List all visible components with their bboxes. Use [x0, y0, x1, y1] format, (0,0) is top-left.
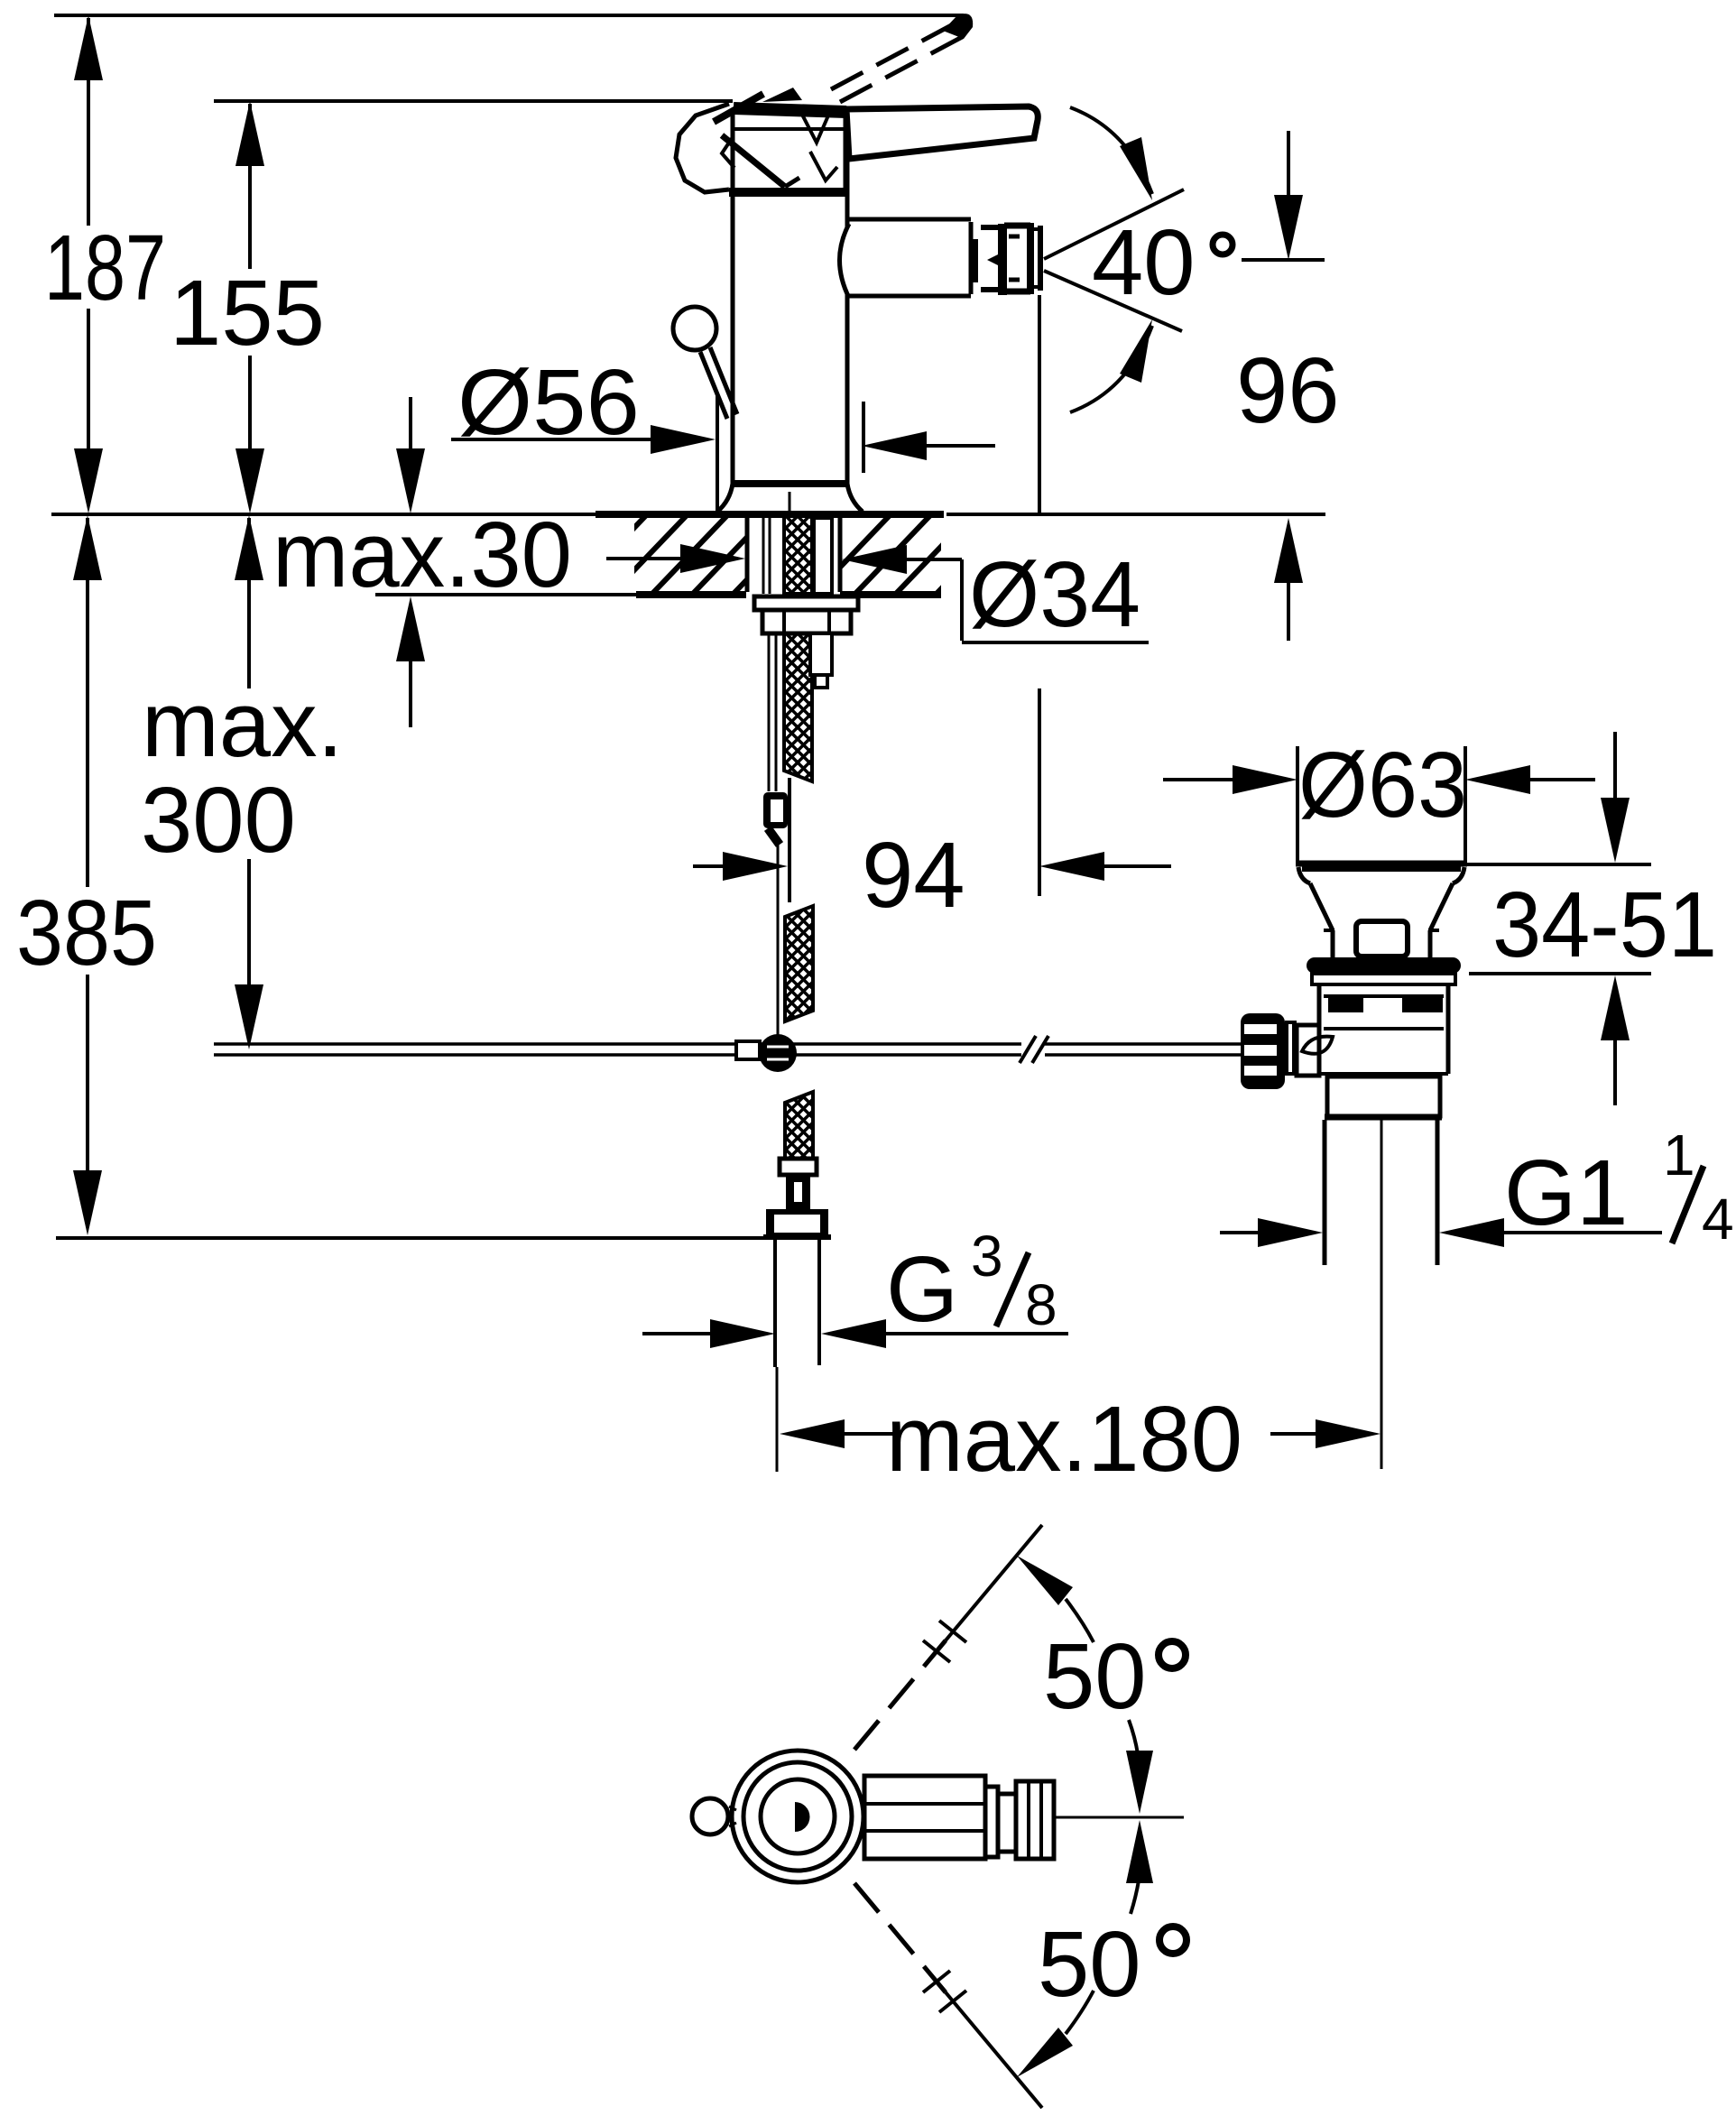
svg-text:300: 300 — [141, 768, 296, 872]
plan view centre line — [1054, 1816, 1184, 1819]
svg-text:Ø63: Ø63 — [1298, 733, 1467, 836]
svg-text:Ø56: Ø56 — [457, 350, 640, 454]
dimension max.180 — [780, 1419, 1380, 1448]
supply union nut — [766, 1209, 828, 1238]
faucet cap — [729, 108, 849, 195]
dimension D56 — [451, 394, 995, 516]
extension line left (max.180) — [776, 1367, 779, 1472]
svg-text:max.180: max.180 — [886, 1387, 1242, 1491]
dimension 94 — [693, 295, 1171, 902]
50deg lower arc arrow — [1017, 2028, 1073, 2077]
svg-text:G1: G1 — [1504, 1141, 1628, 1244]
svg-text:3: 3 — [971, 1224, 1003, 1289]
lever handle rotated 40deg (dashed) — [831, 23, 965, 102]
dimension 187 — [74, 15, 103, 513]
svg-text:max.30: max.30 — [272, 503, 572, 606]
swivel 50deg lower arm (dashed) — [854, 1883, 946, 1992]
flexible hose below nut — [784, 633, 812, 781]
faucet body — [733, 195, 847, 484]
svg-text:1: 1 — [1663, 1123, 1695, 1187]
plan view outer circle — [732, 1751, 863, 1882]
deck bottom line — [375, 593, 636, 596]
rod collar — [736, 1041, 760, 1059]
rod break symbol — [1020, 1036, 1036, 1063]
deck top line — [51, 513, 596, 516]
drain centre line — [1380, 1120, 1383, 1469]
dimension 34-51 — [1467, 732, 1651, 1105]
dimension G3/8 — [642, 1319, 1068, 1348]
svg-text:94: 94 — [862, 823, 965, 927]
drain body — [1319, 984, 1448, 1074]
cap top arrow — [762, 88, 802, 102]
dimension 385 — [73, 515, 102, 1235]
short supply tail — [810, 633, 832, 675]
aerator arrow mark — [987, 250, 1007, 270]
svg-text:50: 50 — [1038, 1912, 1141, 2016]
dimension 155 — [235, 101, 264, 513]
svg-text:G: G — [886, 1237, 958, 1341]
clamp lever — [1302, 1037, 1333, 1054]
lever handle (solid) — [846, 106, 1038, 159]
drain valve lip — [1298, 867, 1310, 883]
drain valve D63 cylinder — [1296, 746, 1467, 864]
svg-text:4: 4 — [1702, 1187, 1734, 1252]
tailpipe G1 1/4 — [1323, 1120, 1327, 1265]
mounting nut — [762, 610, 851, 633]
plan view handle — [864, 1776, 1054, 1859]
leader and label D34 — [842, 545, 1149, 642]
drain inlet box — [1297, 1025, 1319, 1076]
angle arrows at axis — [1126, 1720, 1153, 1914]
svg-text:50: 50 — [1043, 1624, 1147, 1728]
svg-text:Ø34: Ø34 — [969, 542, 1140, 646]
dimension D63 arrows — [1163, 765, 1595, 794]
drain valve taper — [1310, 883, 1333, 930]
50deg upper arc arrow — [1017, 1556, 1073, 1605]
flexible hose (hatched) in shank — [784, 516, 812, 594]
plan view stem — [795, 1802, 810, 1832]
svg-text:96: 96 — [1236, 338, 1340, 442]
svg-text:155: 155 — [170, 261, 325, 365]
pop-up knob — [673, 307, 716, 350]
svg-text:34-51: 34-51 — [1492, 873, 1717, 976]
plan view inner circle — [761, 1779, 835, 1853]
svg-text:385: 385 — [16, 881, 157, 984]
aerator rings — [974, 223, 1040, 295]
pop-up lever rod — [700, 352, 727, 419]
hose coupling — [780, 1159, 817, 1175]
flexible hose middle segment — [785, 906, 813, 1021]
svg-text:8: 8 — [1025, 1272, 1057, 1337]
washer below deck — [754, 596, 858, 610]
threaded shank through deck — [747, 518, 840, 594]
svg-text:40: 40 — [1092, 210, 1196, 314]
horizontal pull rod — [214, 1044, 1242, 1055]
svg-text:187: 187 — [44, 216, 166, 319]
dimension max.30 — [396, 397, 745, 727]
deck hatching right — [812, 512, 1015, 596]
spray angle 40deg legs — [1044, 107, 1184, 412]
swivel 50deg upper arm (dashed) — [854, 1640, 946, 1750]
dashed lever end cap — [943, 14, 973, 39]
body slots — [1328, 997, 1363, 1012]
knurled adjusting nut — [1241, 1013, 1285, 1089]
dimension G1 1/4 — [1220, 1218, 1662, 1247]
reference line (155) — [214, 99, 733, 103]
faucet base — [717, 484, 863, 512]
top reference line (187) — [54, 14, 964, 17]
drain flange — [1307, 957, 1461, 974]
square boss — [1356, 921, 1408, 956]
bottom reference line (385) — [56, 1236, 774, 1240]
svg-text:max.: max. — [142, 672, 343, 776]
spout neck — [840, 219, 972, 298]
lower collar — [1327, 1076, 1440, 1116]
flexible hose lower segment — [785, 1092, 813, 1159]
lever shown in left position (outline) — [676, 94, 837, 192]
dimension max.300 — [235, 515, 263, 1049]
plan view pop-up knob — [692, 1798, 728, 1834]
pop-up pull rod vertical — [769, 633, 776, 791]
ball joint — [759, 1034, 797, 1072]
plan view middle circle — [743, 1762, 852, 1871]
dimension 96 — [1242, 131, 1325, 641]
deck hatching left — [568, 512, 812, 596]
supply pipe G3/8 — [773, 1238, 777, 1367]
